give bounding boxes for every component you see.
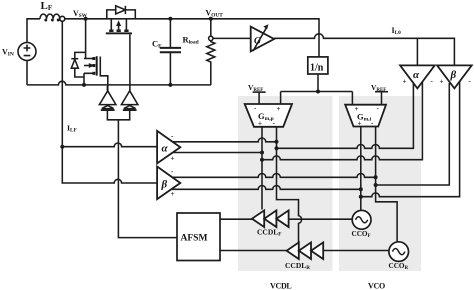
wire: AFSM to CCDLF row [220, 218, 352, 220]
svg-text:α: α [162, 143, 169, 155]
node b1 start [275, 146, 279, 150]
node h1 end [275, 140, 279, 144]
wire b4: branch to right beta - input [361, 82, 460, 197]
wire: Gm,p + output vertical [261, 127, 263, 210]
wire: Gm,i + output vertical to CCOF [360, 127, 362, 211]
svg-text:VIN: VIN [2, 48, 14, 58]
node CF top [168, 17, 172, 21]
svg-text:VCDL: VCDL [270, 282, 291, 290]
VREF terminal (left) [253, 92, 266, 104]
node b2 start [260, 158, 264, 162]
alpha left output marks [171, 132, 175, 163]
svg-text:β: β [161, 179, 168, 191]
svg-text:+: + [171, 190, 175, 198]
voltage source VIN [18, 19, 40, 85]
svg-text:+: + [355, 105, 359, 113]
svg-text:ILF: ILF [67, 124, 77, 134]
gate driver buffers [99, 86, 137, 110]
wire: AFSM to CCDLR row [220, 250, 389, 252]
wire b1: branch to right alpha + input [277, 83, 414, 148]
wire b3: branch to right beta + input [376, 83, 450, 185]
wire: 1/n output branches to Gm inputs [281, 92, 353, 105]
svg-text:-: - [469, 77, 472, 85]
beta left output marks [171, 168, 175, 199]
oscillator CCOF [352, 210, 371, 229]
resistor Rload [207, 19, 215, 85]
bottom return rail [27, 81, 211, 85]
svg-text:1/n: 1/n [310, 63, 324, 74]
svg-text:CF: CF [152, 39, 162, 50]
capacitor CF [160, 19, 181, 85]
wire b2: branch to right alpha - input [262, 82, 422, 160]
svg-text:-: - [171, 168, 174, 176]
svg-text:-: - [431, 77, 434, 85]
wire h3: beta- output to Gm,i- line [172, 174, 376, 178]
wire IL0 from G output to beta feed [274, 34, 454, 66]
block 1/n [308, 57, 328, 92]
svg-text:AFSM: AFSM [181, 234, 208, 244]
current sensor circle on inductor output [60, 16, 65, 21]
svg-text:Rload: Rload [183, 35, 199, 46]
node h4 end [359, 187, 363, 191]
node h2 end [260, 151, 264, 155]
wire h1: alpha- output to Gm,p- line [173, 138, 277, 142]
OTA Gm,p [245, 104, 292, 127]
svg-text:VOUT: VOUT [206, 9, 224, 19]
inductor LF [40, 14, 60, 21]
node VSW [84, 17, 88, 21]
svg-text:-: - [171, 132, 174, 140]
wire: VSW down to low-side switch [85, 19, 87, 59]
node h3 end [374, 175, 378, 179]
node: ILF to alpha input [60, 145, 64, 149]
svg-text:+: + [403, 78, 407, 86]
svg-text:VCO: VCO [368, 282, 385, 290]
svg-text:+: + [440, 78, 444, 86]
node: CF bottom on rail [168, 83, 172, 87]
wire: Gm,i - output vertical, routed to CCOR [376, 127, 398, 242]
VCO shaded panel [339, 96, 421, 271]
wire: driver common to AFSM stem [107, 111, 177, 238]
svg-text:+: + [358, 120, 362, 128]
VCDL shaded panel [238, 96, 333, 271]
wire ILF sense line [61, 21, 63, 146]
delay line CCDLR [287, 242, 324, 259]
delay line CCDLF [252, 210, 289, 227]
svg-text:β: β [450, 69, 457, 81]
node b3 start [374, 183, 378, 187]
svg-text:+: + [171, 154, 175, 162]
Gm,p pin marks [254, 104, 281, 128]
svg-text:α: α [413, 69, 420, 81]
oscillator CCOR [389, 242, 409, 262]
block AFSM [177, 213, 220, 261]
Gm,i pin marks [355, 105, 380, 128]
svg-text:VREF: VREF [371, 83, 386, 93]
transistor Q1 (high-side switch) [106, 19, 132, 91]
svg-text:G: G [254, 37, 261, 47]
svg-text:IL0: IL0 [392, 26, 402, 36]
VREF terminal (right) [375, 92, 388, 105]
amplifier beta (left) [62, 147, 180, 199]
transistor Q2 (low-side NMOS) [84, 56, 108, 91]
beta right input marks [440, 77, 472, 86]
node: NMOS source on rail [82, 83, 86, 87]
alpha right input marks [403, 77, 434, 86]
OTA Gm,i [345, 105, 386, 127]
wire: alpha feed from IL0 line [416, 38, 418, 65]
amplifier beta (right) [437, 65, 472, 88]
wire: top rail VSW to 1/n corner [65, 19, 319, 57]
svg-text:+: + [277, 105, 281, 113]
svg-text:+: + [258, 120, 262, 128]
amplifier G (variable gain) [251, 24, 274, 51]
wire h2: alpha+ output to Gm,p+ line [173, 152, 262, 154]
svg-text:CCDLF: CCDLF [257, 228, 281, 238]
svg-text:VREF: VREF [248, 83, 263, 93]
node b4 start [359, 195, 363, 199]
svg-text:LF: LF [41, 0, 53, 12]
wire h4: beta+ output to Gm,i+ line [172, 186, 361, 190]
amplifier alpha (left) [62, 131, 180, 164]
wire: Rload tap to G input [213, 37, 251, 39]
diode D2 (low-side body diode) [71, 59, 84, 85]
diode D1 (high-side body diode) [107, 6, 136, 19]
wire: branch to body diode [75, 52, 86, 58]
amplifier alpha (right) [400, 65, 435, 88]
node VOUT [209, 17, 213, 21]
wire: Gm,p - output vertical, routed to CCDLR [277, 127, 302, 243]
node: 1/n output [316, 90, 320, 94]
